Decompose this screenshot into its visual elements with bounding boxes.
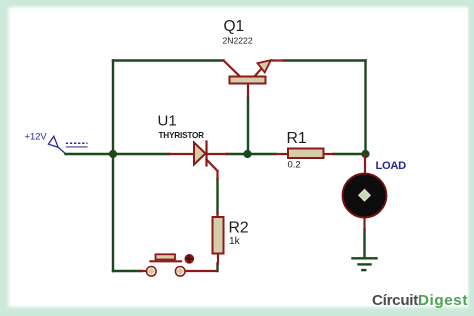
svg-text:2N2222: 2N2222 <box>223 36 253 46</box>
svg-text:U1: U1 <box>158 113 177 130</box>
svg-text:LOAD: LOAD <box>376 160 407 172</box>
svg-text:1k: 1k <box>229 236 241 247</box>
svg-text:+12V: +12V <box>25 130 48 141</box>
svg-text:R1: R1 <box>287 130 307 147</box>
svg-text:THYRISTOR: THYRISTOR <box>159 131 205 140</box>
svg-text:Q1: Q1 <box>224 18 245 35</box>
svg-text:CírcuitDigest: CírcuitDigest <box>372 292 468 309</box>
svg-text:R2: R2 <box>229 220 249 237</box>
svg-text:0.2: 0.2 <box>288 160 301 171</box>
